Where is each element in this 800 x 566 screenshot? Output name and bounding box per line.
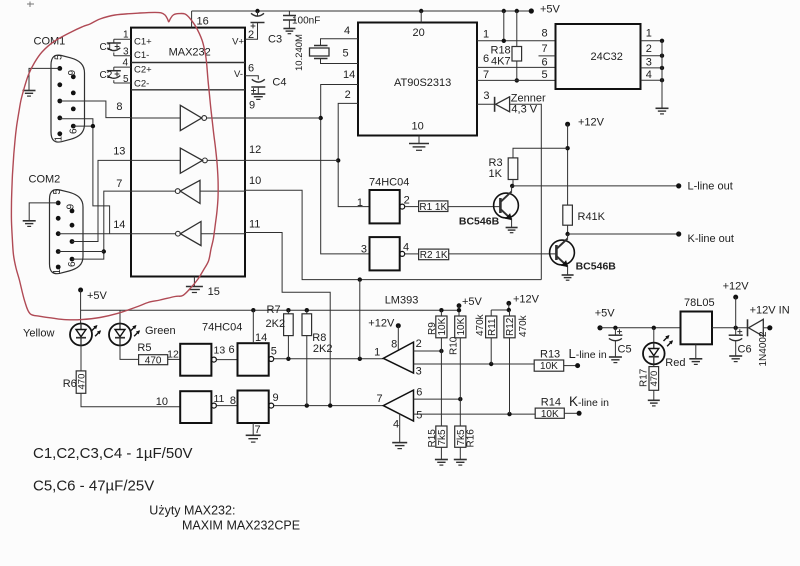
node K-line out terminal bbox=[676, 231, 734, 245]
IC LM393 label bbox=[385, 295, 419, 307]
svg-text:6: 6 bbox=[248, 63, 254, 75]
wire COM2 pin 3 to MAX232 pin 14 bbox=[58, 219, 131, 234]
resistor R9 10K bbox=[427, 310, 448, 338]
svg-text:C5,C6 - 47µF/25V: C5,C6 - 47µF/25V bbox=[33, 478, 154, 495]
pin 2 label AT90S2313 bbox=[345, 89, 351, 101]
wire gate 13 to gate 6 bbox=[216, 344, 237, 360]
svg-text:3: 3 bbox=[416, 366, 422, 378]
svg-text:C1+: C1+ bbox=[134, 37, 152, 48]
svg-text:10: 10 bbox=[412, 121, 424, 133]
resistor R2 1K bbox=[419, 249, 449, 261]
node R8 junction on gate9 wire bbox=[305, 403, 309, 407]
ground of 100nF bbox=[283, 29, 295, 34]
node +12V terminal upper bbox=[565, 117, 605, 129]
resistor R7 2K2 bbox=[266, 304, 294, 359]
inverter gate 74HC04 pins 8-9 with pin 7 bbox=[238, 391, 279, 424]
ground of C6 bbox=[729, 356, 742, 362]
svg-text:7: 7 bbox=[255, 424, 261, 436]
node MAX232 pin 12 junction bbox=[336, 158, 340, 162]
pin 1 stub of MAX232 (C1+) bbox=[114, 30, 131, 41]
svg-text:4K7: 4K7 bbox=[491, 56, 511, 68]
COM2 rotated pin labels bbox=[52, 189, 78, 275]
inverter gate 74HC04 pins 1-2 bbox=[357, 190, 410, 223]
svg-text:4: 4 bbox=[646, 69, 652, 81]
node K-line junction bbox=[565, 232, 569, 236]
ground of COM2 bbox=[23, 221, 36, 227]
wire +5V top rail bbox=[192, 10, 532, 12]
COM1 rotated pin labels bbox=[54, 54, 80, 142]
svg-text:C4: C4 bbox=[272, 77, 286, 89]
svg-text:5: 5 bbox=[416, 410, 422, 422]
svg-text:R14: R14 bbox=[541, 397, 561, 409]
svg-text:5: 5 bbox=[54, 54, 65, 60]
svg-text:1: 1 bbox=[374, 347, 380, 359]
node L-line out terminal bbox=[676, 181, 733, 193]
wire gate output to R2 bbox=[405, 253, 419, 255]
svg-text:1: 1 bbox=[483, 29, 489, 41]
wire zener to L-line net bbox=[510, 104, 542, 279]
ground of R16 bbox=[454, 460, 467, 466]
wire gate output to R1 bbox=[405, 206, 419, 208]
node MAX232 pin 9 junction bbox=[319, 116, 323, 120]
text capacitor values line 1 bbox=[33, 445, 193, 462]
wire AT90 pin 1 to 24C32 pin 8 bbox=[477, 40, 556, 42]
capacitor C3 bbox=[251, 11, 283, 46]
svg-text:2: 2 bbox=[404, 195, 410, 207]
svg-text:1: 1 bbox=[357, 197, 363, 209]
IC MAX232 U1 body bbox=[131, 28, 245, 277]
svg-text:1: 1 bbox=[646, 28, 652, 40]
svg-text:100nF: 100nF bbox=[292, 16, 320, 27]
svg-text:470: 470 bbox=[649, 371, 660, 387]
capacitor C6 47uF bbox=[729, 328, 752, 356]
wire 24C32 pins to ground bbox=[661, 41, 663, 108]
ground of C5 bbox=[609, 357, 622, 363]
svg-text:14: 14 bbox=[255, 332, 267, 344]
svg-text:3: 3 bbox=[361, 244, 367, 256]
wire R11 R12 tops bbox=[491, 308, 511, 316]
svg-text:470: 470 bbox=[76, 374, 87, 390]
LED Red bbox=[643, 328, 685, 369]
capacitor C5 47uF bbox=[608, 328, 631, 357]
ground of 74HC04 bbox=[246, 435, 261, 442]
wire +12V terminal to rail bbox=[735, 297, 737, 328]
svg-text:6: 6 bbox=[483, 53, 489, 65]
svg-text:R16: R16 bbox=[466, 429, 477, 448]
svg-text:R6: R6 bbox=[63, 378, 77, 390]
node pin5 R12 junction bbox=[507, 412, 511, 416]
resistor R3 1K bbox=[489, 157, 518, 180]
pin 5 stub of MAX232 (C2-) bbox=[114, 74, 131, 85]
svg-text:8: 8 bbox=[116, 101, 122, 113]
svg-text:2K2: 2K2 bbox=[313, 343, 333, 355]
wire AT90 pin 3 to zener bbox=[477, 103, 495, 105]
pin 10 ground stub of AT90S2313 bbox=[418, 136, 420, 144]
wire AT90 pin 14 down to MAX232 pin 9 and 74HC04 pin 3 bbox=[321, 85, 370, 254]
svg-text:6: 6 bbox=[542, 57, 548, 69]
svg-text:3: 3 bbox=[483, 90, 489, 102]
svg-text:C1,C2,C3,C4 - 1µF/50V: C1,C2,C3,C4 - 1µF/50V bbox=[33, 445, 193, 462]
red freehand circle around COM ports and MAX232 bbox=[11, 12, 218, 319]
svg-text:V-: V- bbox=[234, 69, 243, 80]
pin 9 wire MAX232 to AT90 pin 14 net bbox=[245, 100, 321, 118]
svg-text:2: 2 bbox=[248, 29, 254, 41]
resistor R13 10K bbox=[534, 349, 564, 373]
wire AT90 pin 2 down to MAX232 pin 12 and 74HC04 pin 1 bbox=[338, 103, 369, 206]
text 74HC04 lower label bbox=[202, 322, 242, 334]
node rail junction at R9 bbox=[439, 308, 443, 312]
op-amp comparator LM393 B pins 7-6-5-4 bbox=[376, 387, 422, 431]
svg-text:6: 6 bbox=[67, 261, 78, 267]
svg-text:C2: C2 bbox=[100, 70, 113, 81]
svg-text:+5V: +5V bbox=[595, 308, 616, 320]
pin 6 label AT90S2313 right bbox=[483, 53, 489, 65]
svg-text:5: 5 bbox=[123, 74, 129, 85]
node +12V terminal PSU bbox=[723, 281, 750, 300]
wire Q1 emitter to ground bbox=[511, 220, 513, 228]
connector COM2 DB9 outline bbox=[29, 174, 84, 274]
svg-text:13: 13 bbox=[113, 146, 125, 158]
svg-text:7: 7 bbox=[116, 178, 122, 190]
wire gate 9 output to comparator 2 output net bbox=[274, 405, 384, 407]
svg-text:+12V: +12V bbox=[513, 294, 540, 306]
svg-text:5: 5 bbox=[542, 69, 548, 81]
node C5 junction bbox=[613, 326, 617, 330]
svg-text:470k: 470k bbox=[475, 313, 486, 336]
node +12V terminal at R11 R12 bbox=[506, 294, 539, 311]
svg-text:7: 7 bbox=[376, 393, 382, 405]
svg-text:R13: R13 bbox=[540, 349, 560, 361]
node rail junction at 74HC04 pin 14 bbox=[251, 308, 255, 312]
node COM2 pin 2 junction bbox=[102, 249, 106, 253]
resistor R4 1K (R41K) bbox=[563, 205, 606, 225]
node +12V branch to R3 bbox=[565, 146, 569, 150]
svg-text:R41K: R41K bbox=[578, 211, 606, 223]
svg-text:C1-: C1- bbox=[134, 50, 149, 61]
svg-text:10K: 10K bbox=[540, 361, 558, 372]
wire R16 to ground bbox=[459, 447, 461, 459]
node R3 collector junction bbox=[510, 184, 514, 188]
capacitor C1 bbox=[100, 39, 121, 56]
node +5V rail junction at AT90 pin 1 pullup bbox=[502, 9, 506, 13]
svg-text:6: 6 bbox=[69, 128, 80, 134]
svg-text:10: 10 bbox=[249, 175, 261, 187]
svg-text:10K: 10K bbox=[437, 317, 448, 335]
pin 4 stub of MAX232 (C2+) bbox=[114, 58, 131, 69]
svg-text:9: 9 bbox=[249, 100, 255, 112]
svg-text:R11: R11 bbox=[487, 318, 498, 336]
pin 6 label 24C32 bbox=[542, 57, 548, 69]
inverter gate 74HC04 pins 10-11 bbox=[180, 391, 224, 423]
pin 14 label AT90S2313 bbox=[343, 69, 355, 81]
resistor R18 4K7 bbox=[491, 11, 522, 80]
wire L-line out bbox=[512, 185, 679, 187]
buffer inside MAX232 pins 14-11 bbox=[131, 222, 245, 246]
svg-text:11: 11 bbox=[249, 219, 260, 231]
svg-text:4: 4 bbox=[393, 419, 399, 431]
node +5V terminal lower left bbox=[78, 288, 107, 303]
text uzyty MAX232 bbox=[149, 504, 235, 518]
IC AT90S2313 U2 body bbox=[358, 23, 477, 136]
node AT90 pin1 pullup junction bbox=[502, 39, 506, 43]
svg-text:R5: R5 bbox=[137, 342, 151, 354]
wire +12V branch to R3 bbox=[513, 148, 568, 158]
svg-text:1: 1 bbox=[54, 136, 65, 142]
svg-text:1: 1 bbox=[52, 269, 63, 275]
wire R3 to L-line out bbox=[512, 180, 514, 186]
wire R5 to gate pin 12 bbox=[167, 349, 180, 361]
wire COM2 pin 2 stub bbox=[58, 251, 104, 253]
wire Green LED to R5 bbox=[120, 346, 139, 360]
transistor Q1 BC546B bbox=[459, 192, 519, 228]
wire R6 to gate pin 10 bbox=[81, 393, 180, 408]
wire LM393 pin 3 to R13 bbox=[414, 363, 535, 365]
svg-text:K-line in: K-line in bbox=[569, 394, 609, 409]
IC 78L05 regulator body bbox=[681, 297, 715, 344]
node +5V terminal PSU output bbox=[595, 308, 616, 331]
wire gate 5 output to comparator 1 output net bbox=[274, 358, 384, 360]
svg-text:16: 16 bbox=[197, 16, 209, 28]
svg-text:R10: R10 bbox=[449, 336, 460, 355]
ground of R17 bbox=[648, 400, 660, 406]
pin 8 label 24C32 bbox=[542, 28, 548, 40]
wire R4 to K-line out bbox=[567, 225, 569, 234]
wire crystal to AT90 pin 5 bbox=[321, 59, 359, 64]
svg-text:K-line out: K-line out bbox=[688, 233, 734, 245]
svg-text:Red: Red bbox=[665, 357, 685, 369]
COM1 pin dots left column bbox=[57, 66, 62, 136]
pin 6 stub of MAX232 (V-) bbox=[245, 63, 258, 80]
LED Green bbox=[109, 310, 176, 345]
svg-text:7k5: 7k5 bbox=[437, 429, 448, 446]
svg-text:74HC04: 74HC04 bbox=[202, 322, 242, 334]
node MAX232 pin11 junction on gate9 wire bbox=[328, 403, 332, 407]
svg-text:L-line in: L-line in bbox=[569, 346, 607, 361]
IC 24C32 U3 body bbox=[556, 24, 641, 89]
svg-text:3: 3 bbox=[646, 57, 652, 69]
resistor R11 470k bbox=[475, 313, 498, 337]
svg-text:9: 9 bbox=[66, 204, 77, 210]
ground of 24C32 bbox=[656, 108, 669, 114]
node pin3 R11 junction bbox=[489, 362, 493, 366]
svg-text:6: 6 bbox=[416, 387, 422, 399]
node COM1 pin2/pin6 junction bbox=[91, 124, 95, 128]
svg-text:8: 8 bbox=[542, 28, 548, 40]
wire K-line out bbox=[568, 233, 679, 235]
svg-text:Green: Green bbox=[145, 325, 176, 337]
resistor R14 10K bbox=[535, 397, 564, 420]
svg-text:Użyty MAX232:: Użyty MAX232: bbox=[149, 504, 235, 518]
svg-text:LM393: LM393 bbox=[385, 295, 419, 307]
wire gate 11 to gate 8 bbox=[216, 395, 237, 407]
wire AT90 pin 6 to 24C32 pin 6 bbox=[477, 66, 556, 68]
pin 1 label AT90S2313 right bbox=[483, 29, 489, 41]
node comparator 1 output riser junction bbox=[358, 277, 362, 281]
LED Yellow bbox=[23, 324, 101, 346]
wire R9 to R15 bbox=[440, 338, 442, 426]
svg-text:4: 4 bbox=[403, 242, 409, 254]
wire R12 to LM393 pin 5 bbox=[509, 338, 511, 414]
inverter gate 74HC04 pins 3-4 bbox=[361, 237, 409, 270]
buffer T2IN-T2OUT inside MAX232 pins 8-9 bbox=[131, 105, 245, 130]
wire COM1 pin 5 to ground bbox=[29, 68, 60, 90]
svg-text:+5V: +5V bbox=[462, 296, 483, 308]
node +5V rail junction at AT90 pin 20 bbox=[419, 9, 423, 13]
pin 5 label 24C32 bbox=[542, 69, 548, 81]
node +5V rail junction at R18 bbox=[515, 9, 519, 13]
pin 7 stub 24C32 bbox=[539, 43, 556, 56]
svg-text:MAXIM MAX232CPE: MAXIM MAX232CPE bbox=[182, 519, 300, 533]
svg-text:C6: C6 bbox=[738, 344, 752, 356]
wire Q2 collector bbox=[567, 234, 569, 239]
ground of Q1 bbox=[506, 228, 518, 233]
svg-text:+12V: +12V bbox=[368, 318, 395, 330]
pin 15 ground stub MAX232 bbox=[194, 277, 219, 299]
node comparator riser junction on gate5 wire bbox=[358, 357, 362, 361]
svg-text:1N4002: 1N4002 bbox=[758, 331, 769, 366]
wire MAX232 pin 7 to COM2 pin 2 bbox=[72, 178, 131, 259]
ground of C4 bbox=[251, 94, 265, 99]
svg-text:12: 12 bbox=[167, 349, 179, 361]
svg-text:BC546B: BC546B bbox=[459, 216, 500, 228]
wire R2 to Q2 base bbox=[449, 253, 556, 255]
wire COM1 pin 6 join bbox=[73, 125, 93, 127]
pin 4 label AT90S2313 bbox=[344, 25, 350, 37]
buffer R1 inside MAX232 pins 13-12 bbox=[131, 148, 245, 173]
svg-text:24C32: 24C32 bbox=[591, 51, 623, 63]
svg-text:Yellow: Yellow bbox=[23, 328, 54, 340]
wire +12V down to R4 bbox=[567, 124, 569, 205]
svg-text:7: 7 bbox=[483, 69, 489, 81]
svg-text:4,3 V: 4,3 V bbox=[511, 104, 537, 116]
svg-text:C5: C5 bbox=[618, 344, 632, 356]
pin 7 ground stub 74HC04 bbox=[253, 423, 260, 436]
pin 4 wire 24C32 right bbox=[641, 69, 665, 82]
wire LM393 pin 4 to ground bbox=[399, 414, 401, 443]
svg-text:1K: 1K bbox=[489, 168, 503, 180]
node pin6 divider junction bbox=[458, 397, 462, 401]
node +12V junction at C6 bbox=[734, 326, 738, 330]
text capacitor values line 2 bbox=[33, 478, 154, 495]
wire diode to +12V IN terminal bbox=[763, 327, 770, 329]
svg-text:+12V: +12V bbox=[578, 117, 605, 129]
wire +12V to LM393 pin 8 bbox=[397, 326, 399, 350]
pin 10 wire MAX232 to comparator output net bbox=[245, 175, 541, 280]
pin 7 label AT90S2313 right bbox=[483, 69, 489, 81]
node +5V terminal top right bbox=[529, 4, 561, 16]
svg-text:R7: R7 bbox=[267, 304, 281, 316]
pin 1 wire 24C32 right bbox=[641, 28, 665, 44]
crystal 10.240M bbox=[294, 34, 329, 71]
node +5V rail junction at C3 bbox=[255, 9, 259, 13]
svg-text:R17: R17 bbox=[639, 368, 650, 387]
transistor Q2 BC546B bbox=[550, 239, 617, 273]
node rail junction at R8 bbox=[305, 308, 309, 312]
svg-text:R1 1K: R1 1K bbox=[419, 202, 447, 213]
svg-text:4: 4 bbox=[122, 58, 128, 69]
svg-text:8: 8 bbox=[230, 395, 236, 407]
wire Q1 collector bbox=[511, 186, 513, 192]
svg-text:78L05: 78L05 bbox=[684, 297, 715, 309]
svg-text:20: 20 bbox=[413, 27, 425, 39]
svg-text:+5V: +5V bbox=[540, 4, 561, 16]
svg-text:470k: 470k bbox=[518, 314, 529, 337]
node Red LED junction bbox=[652, 326, 656, 330]
node R18 to AT90 pin 7 junction bbox=[515, 78, 519, 82]
pin 3 wire 24C32 right bbox=[641, 57, 665, 71]
COM2 pin dots left column bbox=[56, 201, 61, 270]
ground of COM1 bbox=[23, 91, 36, 97]
resistor R16 7k5 bbox=[455, 426, 477, 448]
node pin2 divider junction bbox=[439, 349, 443, 353]
ground of 78L05 bbox=[689, 359, 702, 365]
wire R11 to LM393 pin 3 bbox=[490, 338, 492, 364]
ground of R15 bbox=[435, 460, 448, 466]
svg-text:9: 9 bbox=[67, 70, 78, 76]
pin 2 wire 24C32 right bbox=[641, 43, 665, 58]
wire R13 to L-line in terminal bbox=[564, 365, 578, 367]
node +12V IN terminal bbox=[750, 305, 790, 331]
capacitor 100nF decoupling bbox=[283, 11, 320, 28]
ground under AT90S2313 bbox=[409, 144, 429, 151]
svg-text:9: 9 bbox=[273, 392, 279, 404]
resistor R17 470 bbox=[639, 364, 661, 390]
pin 16 stub of MAX232 bbox=[192, 11, 209, 28]
wire COM1 pin 3 to MAX232 pin 8 bbox=[60, 101, 131, 118]
node +12V terminal LM393 bbox=[368, 318, 401, 330]
svg-text:5: 5 bbox=[52, 189, 63, 195]
svg-text:2: 2 bbox=[345, 89, 351, 101]
COM2 pin dots right column bbox=[70, 209, 75, 262]
svg-text:8: 8 bbox=[391, 339, 397, 351]
svg-text:2: 2 bbox=[416, 338, 422, 350]
wire AT90 pin 4 to crystal bbox=[321, 39, 359, 46]
pin 2 stub of MAX232 (V+) bbox=[245, 26, 258, 41]
wire PSU 5V rail bbox=[600, 327, 681, 329]
svg-text:74HC04: 74HC04 bbox=[369, 177, 409, 189]
pin 3 label AT90S2313 zener bbox=[483, 90, 489, 102]
connector COM1 DB9 outline bbox=[34, 36, 85, 143]
svg-text:7: 7 bbox=[542, 43, 548, 55]
pin 11 wire MAX232 to comparator 2 output net bbox=[245, 219, 330, 406]
wire COM1 pin 2 down bbox=[60, 119, 110, 234]
svg-text:BC546B: BC546B bbox=[576, 261, 617, 273]
pin 5 label AT90S2313 bbox=[343, 48, 349, 60]
resistor R15 7k5 bbox=[427, 426, 448, 448]
text 74HC04 upper label bbox=[369, 177, 409, 189]
resistor R8 2K2 bbox=[302, 310, 332, 405]
text MAXIM MAX232CPE bbox=[182, 519, 300, 533]
COM1 pin dots right column bbox=[71, 74, 76, 128]
wire R14 to K-line in terminal bbox=[564, 412, 579, 414]
node rail junction at R7 bbox=[286, 308, 290, 312]
resistor R1 1K bbox=[419, 201, 448, 213]
svg-text:V+: V+ bbox=[232, 37, 244, 48]
wire 78L05 ground pin bbox=[695, 344, 697, 358]
ground of MAX232 pin 15 bbox=[186, 287, 203, 293]
wire +5V rail lower bbox=[81, 290, 459, 324]
svg-text:C2+: C2+ bbox=[134, 65, 152, 76]
wire R15 to ground bbox=[440, 447, 442, 459]
svg-text:+12V IN: +12V IN bbox=[750, 305, 790, 317]
wire LM393 pin 6 bbox=[414, 398, 461, 400]
svg-text:C1: C1 bbox=[100, 42, 113, 53]
wire LM393 pin 5 to R14 bbox=[414, 413, 536, 415]
wire riser comparator 1 output to MAX232 pin 10 net bbox=[359, 280, 361, 359]
svg-text:10K: 10K bbox=[456, 317, 467, 335]
wire MAX232 pin 13 to COM2 pin 7 bbox=[72, 146, 131, 242]
pin 3 stub of MAX232 (C1-) bbox=[114, 47, 131, 58]
